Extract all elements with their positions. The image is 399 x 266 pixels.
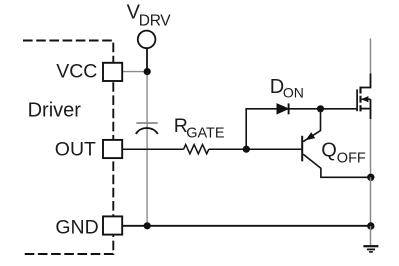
pin OUT square (103, 140, 122, 158)
MOSFET gate bar (356, 89, 358, 111)
wire node B up to diode branch (245, 109, 247, 149)
resistor R_GATE zigzag (184, 145, 209, 154)
node C junction dot (GND/cap) (144, 222, 151, 229)
transistor Q_OFF base bar (301, 136, 303, 162)
transistor Q_OFF emitter arrow (PNP) (306, 133, 314, 140)
wire source down to node E (gray) (370, 119, 372, 177)
diode D_ON cathode bar (288, 103, 290, 114)
MOSFET channel segment (drain) (359, 87, 361, 94)
label Q_OFF (321, 139, 366, 166)
voltage source V_DRV circle (138, 31, 156, 49)
pin GND square (103, 216, 122, 234)
node B junction dot on OUT wire (243, 146, 250, 153)
svg-text:DRV: DRV (139, 13, 172, 30)
transistor Q_OFF emitter (to node D) (303, 109, 320, 142)
node F junction dot (GND rail right) (367, 222, 374, 229)
MOSFET channel segment (body) (359, 96, 361, 103)
svg-text:OFF: OFF (337, 150, 366, 166)
svg-text:OUT: OUT (55, 139, 96, 161)
wire node D to MOSFET gate (321, 108, 358, 110)
wire GND rail (122, 225, 371, 227)
wire diode anode (245, 108, 277, 110)
capacitor C (top plate, gray) (136, 122, 157, 124)
wire resistor to transistor base (209, 148, 302, 150)
label R_GATE (174, 115, 225, 142)
MOSFET drain lead (361, 74, 371, 88)
wire OUT pin to resistor (122, 148, 184, 150)
pin VCC square (103, 63, 122, 81)
wire node E down to node F (gray) (370, 177, 372, 226)
svg-text:VCC: VCC (56, 61, 97, 83)
ground symbol (363, 246, 378, 252)
transistor Q_OFF collector (303, 154, 371, 177)
svg-text:Q: Q (321, 139, 337, 161)
node E junction dot (collector) (367, 174, 374, 181)
driver IC dashed boundary (23, 41, 113, 255)
wire VCC pin to node A (gray) (122, 71, 147, 73)
MOSFET channel segment (source) (359, 105, 361, 111)
node A junction dot (144, 68, 151, 75)
wire MOSFET source/body down (370, 99, 372, 119)
wire V_DRV source to node A (146, 48, 148, 71)
wire node F to ground symbol (gray) (370, 226, 372, 245)
capacitor C (curved bottom plate) (136, 128, 158, 134)
MOSFET source lead (360, 108, 370, 110)
svg-text:GND: GND (55, 216, 98, 238)
wire diode cathode to node D (289, 108, 321, 110)
MOSFET body arrowhead (361, 96, 368, 102)
wire MOSFET drain up (gray) (370, 38, 372, 73)
svg-text:GATE: GATE (186, 126, 225, 142)
MOSFET body arrow line (362, 98, 371, 100)
diode D_ON triangle (277, 104, 288, 114)
label V_DRV (127, 2, 172, 30)
svg-text:ON: ON (283, 85, 304, 101)
node D junction dot (317, 105, 324, 112)
wire node A down through capacitor to node C (gray) (146, 72, 148, 226)
svg-text:Driver: Driver (28, 99, 82, 121)
label D_ON (270, 76, 304, 100)
